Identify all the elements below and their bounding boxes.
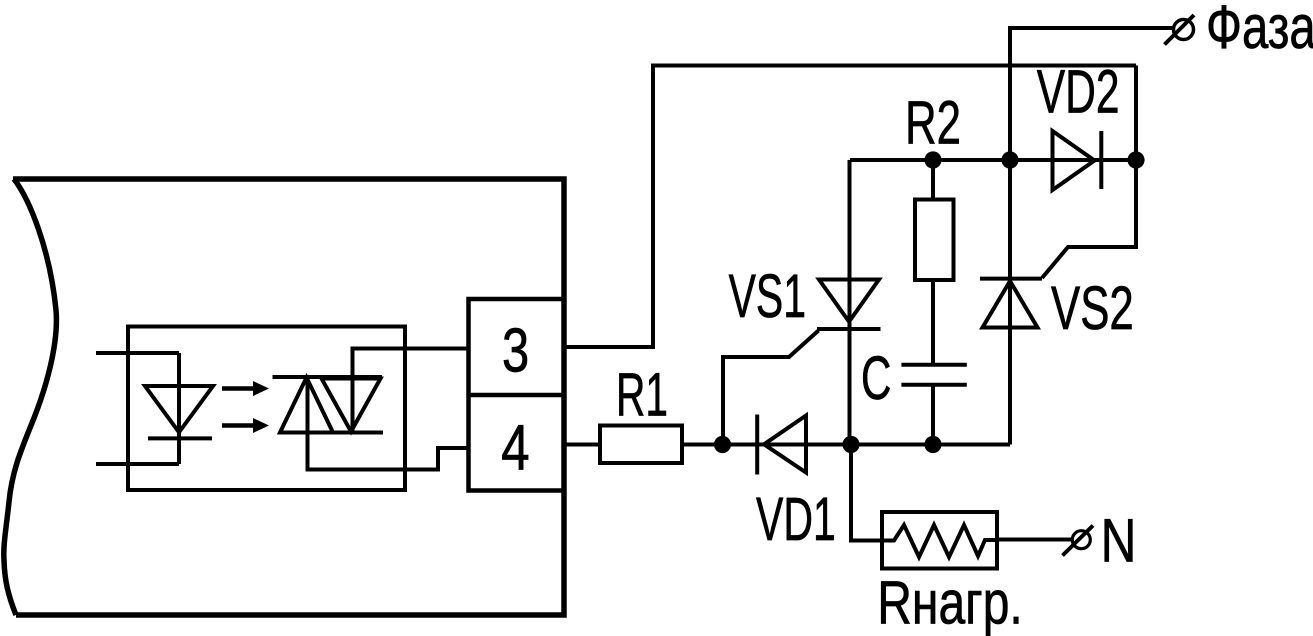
svg-text:C: C [861,344,891,413]
svg-text:3: 3 [502,317,529,386]
svg-text:Фаза: Фаза [1206,0,1313,62]
svg-text:VD2: VD2 [1037,58,1120,127]
svg-text:VD1: VD1 [756,485,836,554]
svg-text:4: 4 [501,412,529,484]
svg-text:VS1: VS1 [729,262,806,331]
svg-text:VS2: VS2 [1051,274,1134,343]
svg-text:Rнагр.: Rнагр. [877,569,1023,636]
svg-text:N: N [1101,507,1137,576]
svg-text:R2: R2 [905,89,961,158]
svg-text:R1: R1 [616,361,668,430]
